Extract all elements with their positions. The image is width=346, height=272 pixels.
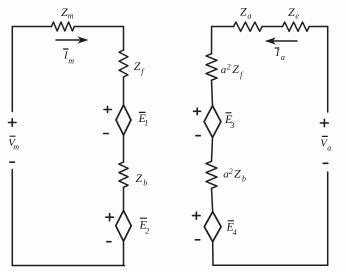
- svg-text:f: f: [141, 67, 145, 76]
- label E1: [138, 111, 149, 128]
- macron over I_m: [64, 48, 69, 50]
- macron over E2: [140, 217, 146, 219]
- svg-text:Z: Z: [134, 59, 141, 73]
- svg-text:I: I: [275, 47, 281, 59]
- wire: right branch bottom segment: [212, 242, 214, 266]
- svg-text:b: b: [143, 179, 147, 188]
- label Z_b: [136, 171, 148, 188]
- svg-text:Z: Z: [240, 5, 247, 19]
- wire: right loop right side lower segment: [327, 172, 329, 265]
- polarity - of E1: [104, 133, 109, 135]
- svg-text:Z: Z: [234, 167, 241, 181]
- wire: right loop bottom rail: [213, 264, 328, 266]
- source E3 (diamond): [204, 106, 221, 138]
- polarity - of V_a: [323, 162, 328, 164]
- current arrow I_m: [56, 36, 89, 43]
- polarity - of E2: [107, 241, 111, 243]
- svg-text:2: 2: [229, 167, 233, 176]
- macron over E3: [226, 112, 231, 114]
- polarity - of V_m: [10, 161, 15, 163]
- wire: right branch between E3 and a2Zb: [212, 138, 213, 162]
- label Z_a: [240, 5, 251, 21]
- macron over I_a: [275, 47, 279, 49]
- svg-text:Z: Z: [136, 171, 143, 185]
- label V_a: [320, 138, 331, 153]
- svg-text:b: b: [242, 175, 246, 184]
- polarity + of E2: [106, 214, 114, 221]
- polarity - of E4: [195, 239, 199, 241]
- svg-text:f: f: [240, 71, 244, 80]
- resistor Z_a: [234, 22, 263, 31]
- polarity + of V_m: [9, 119, 17, 126]
- svg-text:2: 2: [227, 63, 231, 72]
- polarity + of E4: [193, 212, 201, 219]
- svg-text:1: 1: [144, 119, 148, 128]
- source E4 (diamond): [204, 212, 221, 242]
- source E2 (diamond): [116, 211, 131, 242]
- wire: right loop left branch top segment: [211, 27, 213, 54]
- label E3: [224, 112, 234, 130]
- wire: middle branch top segment: [123, 27, 125, 51]
- polarity - of E3: [196, 135, 200, 137]
- wire: right loop right side upper segment: [327, 27, 329, 113]
- macron over V_a: [322, 135, 327, 137]
- svg-text:a: a: [281, 53, 285, 62]
- svg-text:m: m: [68, 12, 74, 21]
- source E1 (diamond): [116, 105, 131, 135]
- resistor a2Zf: [206, 54, 217, 80]
- wire: middle branch between E1 and Z_b: [123, 135, 125, 162]
- label Z_m: [61, 5, 74, 21]
- wire: left loop left side lower segment: [11, 170, 13, 266]
- current arrow I_a: [265, 37, 297, 44]
- resistor Z_b: [119, 162, 128, 187]
- wire: right branch between a2Zf and E3: [212, 80, 213, 106]
- wire: middle branch between Z_f and E1: [123, 77, 125, 105]
- label Z_f: [134, 59, 146, 76]
- label V_m: [8, 137, 19, 152]
- macron over E4: [228, 220, 234, 222]
- wire: left loop bottom rail: [12, 265, 124, 267]
- svg-text:e: e: [295, 11, 299, 20]
- wire: middle branch between Z_b and E2: [123, 187, 125, 210]
- svg-text:m: m: [68, 57, 74, 66]
- label I_m: [63, 50, 74, 66]
- wire: left loop top rail: [12, 26, 123, 28]
- label E2: [139, 218, 150, 236]
- polarity + of V_a: [320, 119, 328, 126]
- svg-text:a: a: [247, 11, 251, 20]
- label Z_e: [288, 5, 299, 20]
- svg-text:4: 4: [233, 228, 237, 237]
- polarity + of E1: [104, 106, 111, 112]
- macron over E1: [139, 111, 145, 113]
- label a2Zb: [223, 167, 246, 184]
- macron over V_m: [10, 135, 15, 137]
- svg-text:3: 3: [229, 121, 234, 130]
- wire: middle branch bottom segment: [123, 241, 125, 265]
- wire: right loop top rail: [212, 26, 328, 28]
- resistor Z_m: [52, 22, 75, 31]
- wire: left loop left side upper segment: [11, 27, 13, 112]
- resistor Z_e: [283, 22, 310, 31]
- svg-text:m: m: [13, 143, 19, 152]
- label E4: [226, 219, 237, 236]
- label I_a: [275, 47, 285, 62]
- resistor a2Zb: [206, 161, 217, 188]
- wire: right branch between a2Zb and E4: [212, 188, 213, 211]
- svg-text:2: 2: [145, 227, 149, 236]
- svg-text:a: a: [327, 144, 331, 153]
- resistor Z_f: [119, 50, 128, 77]
- polarity + of E3: [194, 108, 201, 115]
- label a2Zf: [221, 62, 244, 80]
- svg-text:Z: Z: [288, 5, 295, 19]
- svg-text:Z: Z: [232, 62, 239, 76]
